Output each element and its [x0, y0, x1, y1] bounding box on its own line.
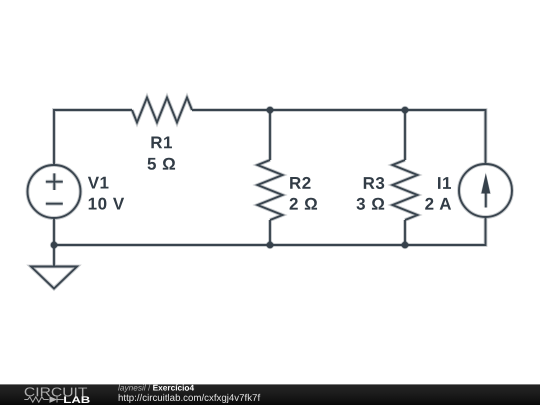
wire R2 bottom lead: [269, 220, 271, 245]
footer logo resistor-diode line: [24, 397, 63, 403]
wire R3 bottom lead: [404, 220, 406, 245]
resistor R1: [132, 98, 192, 123]
resistor R3: [393, 160, 418, 220]
V1 minus sign: [46, 203, 63, 205]
wire top-left: V1 up and across to R1: [54, 110, 132, 165]
resistor R2: [258, 160, 283, 220]
current source I1: [459, 164, 512, 217]
wire R3 top lead: [404, 110, 406, 160]
junction node bottom R3: [402, 242, 409, 249]
junction node B top: [402, 107, 409, 114]
svg-text:3 Ω: 3 Ω: [356, 195, 385, 214]
wire/component stroke main pass: [28, 98, 513, 289]
svg-text:R2: R2: [289, 174, 312, 193]
svg-text:2 Ω: 2 Ω: [289, 195, 318, 214]
wire/component stroke soft pass: [28, 98, 513, 289]
svg-text:R3: R3: [363, 174, 386, 193]
svg-text:http://circuitlab.com/cxfxgj4v: http://circuitlab.com/cxfxgj4v7fk7f: [118, 393, 260, 404]
svg-text:10 V: 10 V: [88, 195, 125, 214]
junction dot halos: [266, 106, 274, 114]
I1 arrow head: [481, 172, 491, 194]
wire top horizontal (node A to node B): [270, 109, 405, 111]
junction node bottom R2: [267, 242, 274, 249]
wire bottom: ground node across and up to I1: [54, 217, 486, 245]
svg-text:laynesil / Exercício4: laynesil / Exercício4: [118, 383, 194, 393]
footer bar: [0, 384, 540, 405]
svg-text:5 Ω: 5 Ω: [147, 155, 176, 174]
voltage source V1: [28, 165, 81, 218]
footer logo diode triangle: [49, 396, 57, 403]
svg-text:2 A: 2 A: [425, 195, 452, 214]
junction node A top: [267, 107, 274, 114]
V1 plus sign: [46, 173, 63, 190]
wire ground node to ground symbol: [53, 245, 55, 267]
wire top horizontal (R1 to node A): [192, 109, 270, 111]
wire top-right: node B across and down to I1: [405, 110, 486, 164]
wire V1 bottom to ground node: [53, 218, 55, 245]
wire R2 top lead: [269, 110, 271, 160]
ground: [31, 267, 77, 289]
svg-text:LAB: LAB: [63, 395, 90, 405]
I1 arrow shaft: [485, 188, 487, 208]
svg-text:V1: V1: [88, 174, 110, 193]
svg-text:R1: R1: [150, 133, 173, 152]
junction ground node: [51, 242, 58, 249]
svg-text:I1: I1: [437, 174, 452, 193]
